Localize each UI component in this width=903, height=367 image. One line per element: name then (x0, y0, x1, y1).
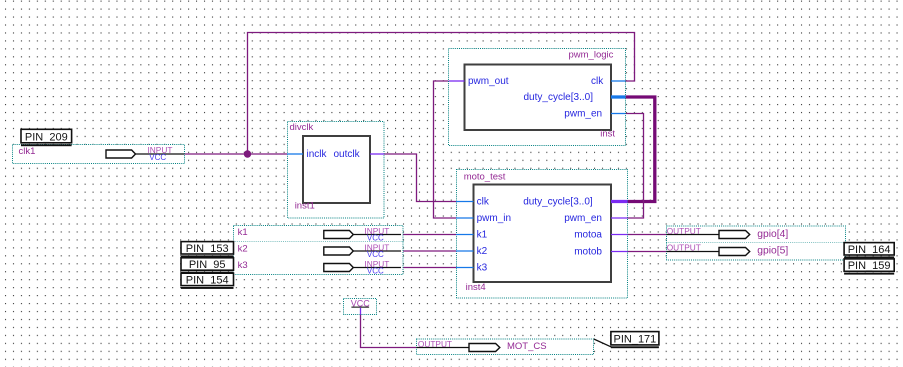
pin location box PIN_154 (181, 273, 234, 289)
svg-text:clk: clk (477, 197, 490, 208)
svg-text:pwm_logic: pwm_logic (569, 49, 614, 60)
svg-text:OUTPUT: OUTPUT (418, 339, 452, 349)
svg-text:VCC: VCC (367, 234, 384, 243)
svg-text:OUTPUT: OUTPUT (667, 226, 701, 236)
svg-text:k2: k2 (477, 246, 488, 257)
block pwm_logic (inst) (449, 49, 626, 146)
output pin MOT_CS (416, 339, 593, 355)
svg-text:duty_cycle[3..0]: duty_cycle[3..0] (523, 197, 593, 208)
svg-text:PIN_171: PIN_171 (613, 333, 656, 345)
svg-text:inst: inst (600, 128, 615, 139)
svg-text:outclk: outclk (334, 149, 361, 160)
svg-text:clk1: clk1 (19, 146, 36, 157)
pin location box PIN_164 (844, 243, 894, 259)
port k1 (456, 230, 488, 241)
svg-text:PIN_159: PIN_159 (848, 260, 891, 272)
port pwm_in (456, 213, 511, 224)
svg-text:inst1: inst1 (295, 201, 315, 212)
svg-text:motoa: motoa (574, 230, 602, 241)
block divclk (inst1) (287, 122, 384, 219)
svg-text:VCC: VCC (367, 267, 384, 276)
svg-text:PIN_95: PIN_95 (189, 259, 226, 271)
svg-text:divclk: divclk (290, 122, 314, 133)
port motob (574, 246, 627, 257)
wire motob to gpio[5] (628, 251, 667, 253)
svg-text:inst4: inst4 (466, 282, 486, 293)
port pwm_en out (564, 213, 627, 224)
input pin k1 (234, 226, 404, 243)
port clk (456, 197, 490, 208)
pin location box PIN_153 (181, 242, 234, 258)
wire k3 (401, 267, 456, 269)
wire clk1 net: INPUT symbol to divclk inclk (184, 153, 287, 155)
svg-text:OUTPUT: OUTPUT (667, 243, 701, 253)
svg-text:k2: k2 (238, 244, 248, 255)
wire clk1 net branch up and over to pwm_logic clk (248, 33, 635, 155)
power symbol VCC (344, 298, 377, 314)
svg-text:k3: k3 (238, 260, 248, 271)
svg-text:pwm_in: pwm_in (477, 213, 511, 224)
junction on clk1 net (244, 150, 251, 157)
port inclk (287, 149, 328, 160)
svg-text:VCC: VCC (149, 153, 166, 162)
input pin k2 (234, 242, 404, 260)
wire motoa to gpio[4] (628, 234, 667, 236)
svg-text:PIN_154: PIN_154 (186, 275, 229, 287)
svg-text:PIN_209: PIN_209 (25, 131, 68, 143)
wire k2 (401, 250, 456, 252)
svg-text:k3: k3 (477, 263, 488, 274)
port clk (591, 76, 625, 87)
input pin clk1 with PIN_209 (13, 129, 185, 163)
port motoa (574, 230, 627, 241)
pin location box PIN_171 (611, 332, 659, 349)
input pin k3 (234, 258, 404, 276)
block moto_test (inst4) (456, 170, 628, 299)
wire k1 (401, 234, 456, 236)
svg-text:MOT_CS: MOT_CS (507, 341, 547, 352)
svg-text:duty_cycle[3..0]: duty_cycle[3..0] (524, 92, 594, 103)
svg-text:pwm_en: pwm_en (564, 213, 602, 224)
pin location box PIN_95 (181, 258, 234, 274)
svg-text:PIN_153: PIN_153 (186, 243, 229, 255)
svg-text:gpio[5]: gpio[5] (757, 246, 788, 257)
port duty_cycle[3..0] out (523, 197, 627, 208)
port duty_cycle[3..0] (524, 92, 626, 103)
svg-text:motob: motob (574, 246, 602, 257)
port k2 (456, 246, 488, 257)
svg-text:k1: k1 (238, 227, 248, 238)
port k3 (456, 263, 488, 274)
pin location box PIN_159 (844, 259, 894, 275)
output pin gpio[4] (666, 226, 845, 243)
svg-text:pwm_en: pwm_en (564, 109, 602, 120)
wire outclk to moto_test clk (384, 154, 456, 202)
wire VCC to MOT_CS output (361, 315, 417, 348)
svg-text:pwm_out: pwm_out (468, 76, 509, 87)
svg-text:moto_test: moto_test (464, 172, 506, 183)
wire pwm_en pwm_logic to moto_test (625, 114, 643, 219)
wire pwm_out to moto_test pwm_in (434, 81, 457, 218)
port outclk (334, 149, 385, 160)
rats-nest line to PIN_171 (594, 339, 612, 347)
svg-text:gpio[4]: gpio[4] (757, 229, 788, 240)
svg-text:inclk: inclk (307, 149, 328, 160)
svg-text:PIN_164: PIN_164 (848, 244, 891, 256)
port pwm_en (564, 109, 625, 120)
svg-text:clk: clk (591, 76, 604, 87)
output pin gpio[5] (666, 243, 845, 261)
bus duty_cycle[3..0] pwm_logic to moto_test (625, 97, 655, 202)
svg-text:k1: k1 (477, 230, 488, 241)
port pwm_out (449, 76, 509, 87)
